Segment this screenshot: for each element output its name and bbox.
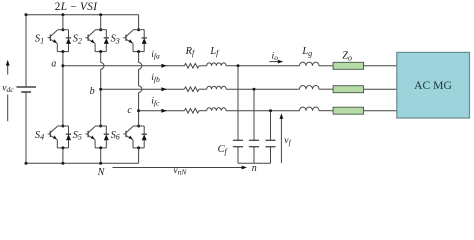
node a: [61, 64, 64, 67]
wire: capacitor star rail: [238, 162, 271, 164]
wire: leg1 mid: [62, 52, 64, 126]
wire: leg1 upper: [62, 15, 64, 30]
svg-text:a: a: [51, 58, 56, 69]
inductor Lf phase b: [207, 86, 226, 89]
current arrow i_fa: [161, 64, 166, 68]
node c: [137, 109, 140, 112]
wire: cap branch a upper: [237, 66, 239, 141]
wire: Lf to Lg phase c: [226, 110, 299, 112]
wire: cap branch c upper: [270, 111, 272, 141]
inductor Lg phase c: [300, 107, 320, 111]
wire: Zo to AC MG phase c: [364, 110, 397, 112]
svg-text:N: N: [97, 167, 106, 178]
inductor Lg phase b: [300, 85, 320, 89]
resistor Rf phase a: [184, 64, 199, 69]
node: + rail leg2 junction: [99, 13, 102, 16]
svg-text:c: c: [127, 105, 132, 116]
impedance Zo phase a: [333, 62, 364, 69]
switch S6 (IGBT+diode): [137, 125, 140, 128]
wire: leg2 mid a-hop: [100, 52, 102, 63]
annotation: v_dc arrow upper: [7, 63, 9, 74]
block: AC MG: [397, 52, 470, 118]
inductor Lf phase c: [207, 108, 226, 111]
wire: positive DC rail: [26, 14, 139, 16]
annotation: v_nN arrow: [113, 167, 244, 169]
wire: cap branch b upper: [253, 89, 255, 140]
wire: Lg to Zo phase c: [319, 110, 333, 112]
wire: battery bottom lead: [25, 92, 27, 163]
switch S4 (IGBT+diode): [61, 125, 64, 128]
capacitor Cf c bottom plate: [266, 146, 276, 148]
node: - rail leg1 junction: [61, 162, 64, 165]
battery Vdc negative plate: [21, 91, 31, 93]
wire: phase c to filter: [139, 110, 185, 112]
wire: leg1 lower: [62, 148, 64, 163]
svg-text:AC MG: AC MG: [414, 79, 452, 92]
wire: leg3 mid with hops: [138, 52, 140, 63]
capacitor Cf a top plate: [233, 139, 243, 141]
wire: cap branch a lower: [237, 147, 239, 164]
capacitor Cf b top plate: [249, 139, 259, 141]
wire: Zo to AC MG phase b: [364, 88, 397, 90]
wire: leg2 lower: [100, 148, 102, 163]
current arrow i_fb: [161, 87, 166, 91]
capacitor Cf a bottom plate: [233, 146, 243, 148]
switch S2 (IGBT+diode): [99, 28, 102, 31]
wire: Rf-Lf phase b: [199, 88, 207, 90]
node: + rail / battery junction: [25, 13, 28, 16]
wire: Zo to AC MG phase a: [364, 65, 397, 67]
wire: Rf-Lf phase c: [199, 110, 207, 112]
node: phase b cap tap: [253, 88, 256, 91]
resistor Rf phase c: [184, 108, 199, 113]
node: + rail leg1 junction: [61, 13, 64, 16]
wire: Lf to Lg phase b: [226, 88, 299, 90]
node: phase a cap tap: [237, 64, 240, 67]
resistor Rf phase b: [184, 87, 199, 92]
wire: Lg to Zo phase b: [319, 88, 333, 90]
wire: cap branch b lower: [253, 147, 255, 164]
svg-text:2L − VSI: 2L − VSI: [55, 1, 98, 13]
impedance Zo phase b: [333, 86, 364, 93]
wire: phase a to filter: [63, 65, 184, 67]
wire: Lf to Lg phase a: [226, 65, 299, 67]
annotation: v_dc arrow lower: [7, 95, 9, 122]
annotation: i_o arrow: [269, 61, 279, 63]
node: phase c cap tap: [269, 109, 272, 112]
node: - rail leg2 junction: [99, 162, 102, 165]
switch S3 (IGBT+diode): [137, 28, 140, 31]
svg-text:b: b: [90, 86, 95, 97]
capacitor Cf c top plate: [266, 139, 276, 141]
inductor Lg phase a: [300, 62, 320, 66]
capacitor Cf b bottom plate: [249, 146, 259, 148]
wire: Rf-Lf phase a: [199, 65, 207, 67]
wire: cap branch c lower: [270, 147, 272, 164]
annotation: v_f arrow: [280, 117, 282, 163]
battery Vdc positive plate: [17, 86, 37, 88]
switch S1 (IGBT+diode): [61, 28, 64, 31]
wire: leg3 upper: [138, 15, 140, 30]
wire: Lg to Zo phase a: [319, 65, 333, 67]
node b: [99, 88, 102, 91]
wire: leg3 lower: [138, 148, 140, 163]
current arrow i_fc: [161, 109, 166, 113]
impedance Zo phase c: [333, 107, 364, 114]
svg-text:n: n: [252, 163, 257, 174]
node: - rail / battery junction: [25, 162, 28, 165]
wire: leg2 upper: [100, 15, 102, 30]
wire: battery top lead: [25, 15, 27, 87]
inductor Lf phase a: [207, 63, 226, 66]
wire: phase b to filter: [101, 88, 185, 90]
wire: negative DC rail: [26, 162, 139, 164]
switch S5 (IGBT+diode): [99, 125, 102, 128]
